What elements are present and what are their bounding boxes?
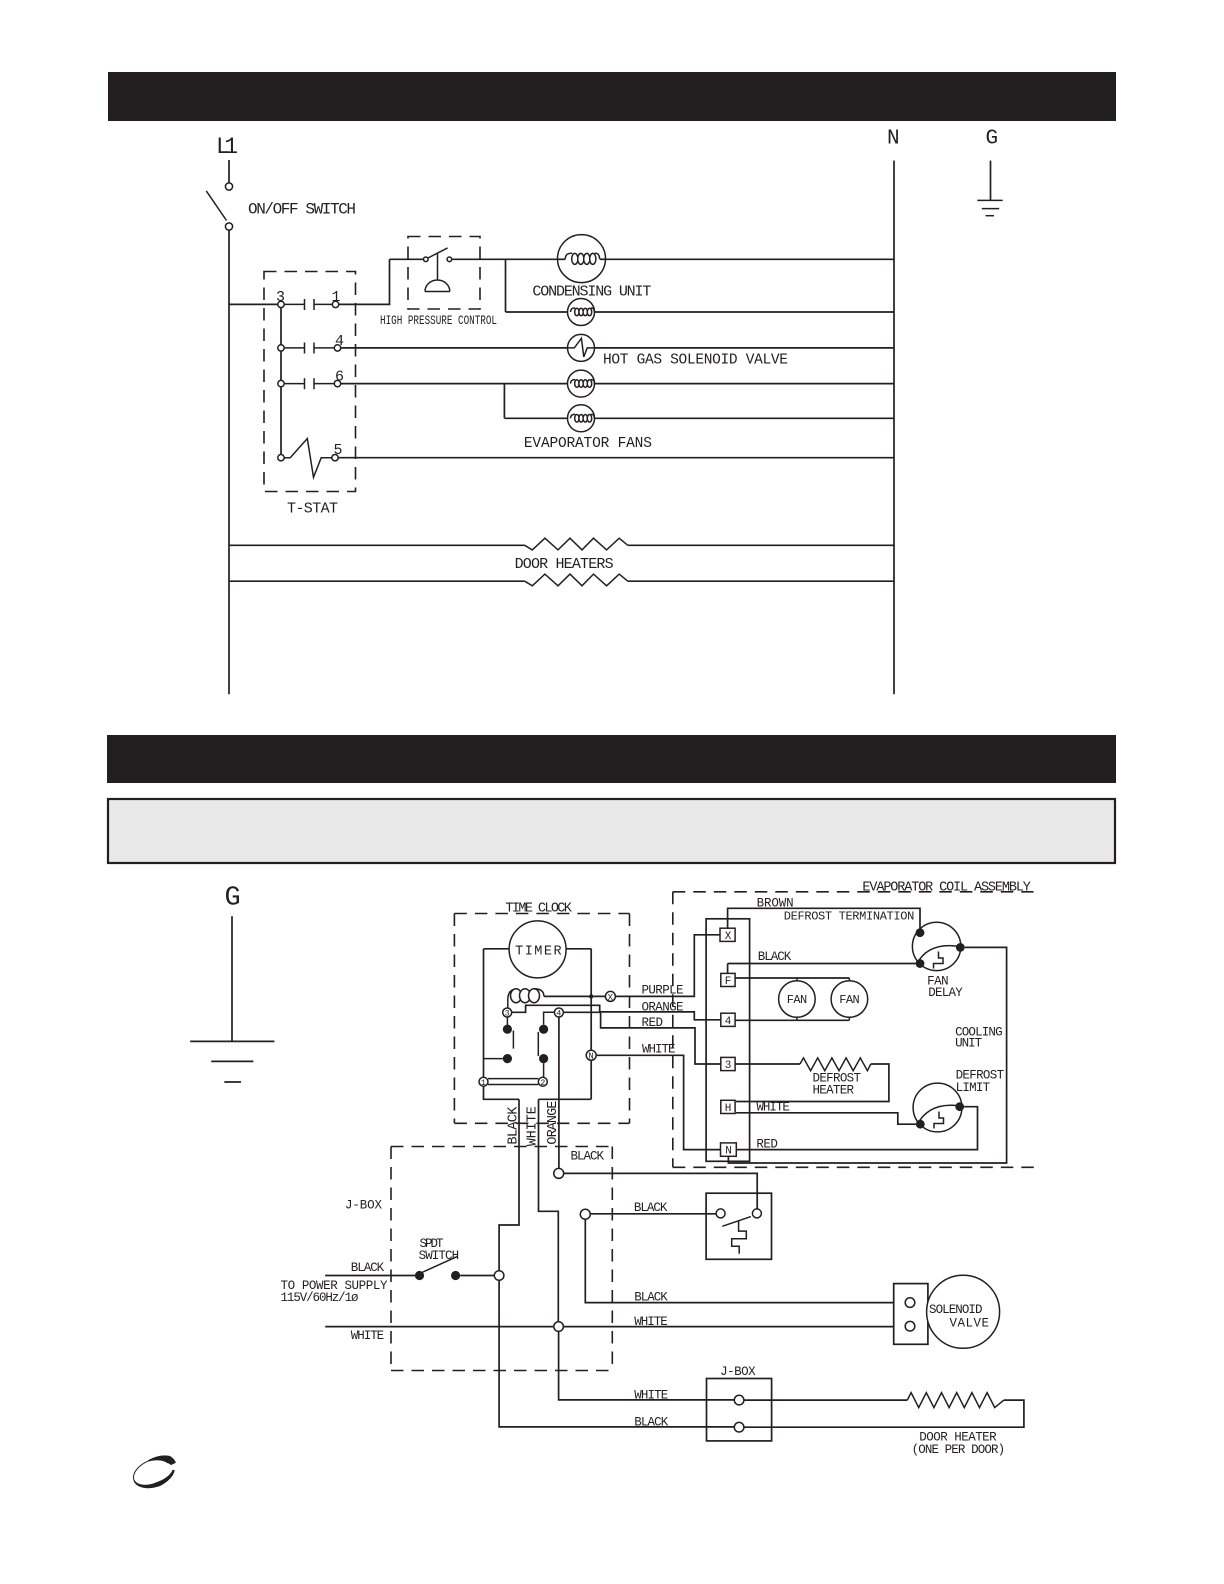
header bar 1 — [108, 72, 1116, 121]
terminal strip — [706, 919, 750, 1162]
svg-text:FAN: FAN — [839, 993, 860, 1007]
terminal 4 box — [721, 1013, 735, 1028]
svg-text:VALVE: VALVE — [950, 1317, 990, 1331]
svg-text:1: 1 — [481, 1078, 486, 1088]
wire coil to X — [544, 995, 606, 997]
ground (lower) — [190, 1041, 274, 1082]
solenoid terminal 2 — [905, 1321, 915, 1331]
terminal H box — [721, 1100, 735, 1115]
gray sub-header bar — [108, 799, 1115, 863]
svg-text:BROWN: BROWN — [757, 896, 794, 910]
wire door heater row 1b — [628, 544, 894, 546]
wire red N — [736, 1107, 977, 1150]
svg-text:SWITCH: SWITCH — [419, 1249, 460, 1263]
wire condenser fan row — [506, 311, 895, 313]
terminal X box — [720, 928, 735, 943]
wire black bottom drop — [499, 1280, 734, 1427]
svg-text:WHITE: WHITE — [351, 1329, 385, 1343]
terminal 2 (timer) — [538, 1077, 547, 1088]
svg-text:TIMER: TIMER — [515, 944, 562, 959]
svg-text:HIGH PRESSURE CONTROL: HIGH PRESSURE CONTROL — [380, 314, 497, 328]
door heater resistor 1 — [525, 538, 628, 550]
wire timer frame top — [484, 948, 592, 950]
svg-text:RED: RED — [756, 1137, 778, 1151]
wire black to relay — [590, 1213, 716, 1215]
wire orange drop — [558, 1017, 560, 1168]
junction spdt out — [494, 1271, 504, 1281]
svg-text:N: N — [887, 128, 900, 151]
svg-text:WHITE: WHITE — [634, 1315, 668, 1329]
wire black junction drop — [585, 1219, 893, 1302]
wire G lead — [990, 161, 992, 201]
svg-text:WHITE: WHITE — [634, 1388, 668, 1402]
fan motor 2 — [831, 978, 868, 1020]
wire door heater row 2b — [628, 580, 894, 582]
evaporator fan motor 2 — [568, 405, 595, 432]
wire contact1 to HPC riser — [339, 259, 390, 304]
svg-text:BLACK: BLACK — [634, 1201, 668, 1215]
wire red (from 4) — [563, 1012, 720, 1064]
wire white bottom drop — [559, 1331, 735, 1400]
solenoid valve — [927, 1275, 1000, 1348]
wire door heater row 1 — [229, 544, 525, 546]
defrost termination relay box — [706, 1193, 771, 1259]
time clock dashed enclosure — [454, 914, 629, 1124]
svg-text:ORANGE: ORANGE — [642, 1001, 684, 1015]
junction white — [554, 1322, 564, 1332]
door heater resistor 2 — [525, 574, 628, 586]
ground (top) — [977, 200, 1002, 215]
wire G lead lower — [231, 916, 233, 1041]
svg-text:N: N — [725, 1146, 732, 1158]
wire condensing drop — [505, 259, 507, 312]
svg-text:115V/60Hz/1ø: 115V/60Hz/1ø — [281, 1291, 359, 1305]
svg-text:L1: L1 — [216, 134, 238, 160]
svg-text:TIME CLOCK: TIME CLOCK — [505, 902, 572, 917]
wire defrost heater feed — [735, 1063, 800, 1065]
wire evap fan row 2 — [504, 417, 894, 419]
wire door heater return — [744, 1400, 1024, 1427]
wire white to door heater — [744, 1399, 907, 1401]
wire white drop — [539, 1099, 559, 1322]
wire defrost heater return — [736, 1064, 889, 1102]
timer contact right — [538, 1012, 554, 1077]
door heater J-BOX — [707, 1379, 772, 1441]
svg-text:CONDENSING UNIT: CONDENSING UNIT — [532, 283, 651, 300]
contact 3-1 — [276, 289, 341, 310]
svg-text:BLACK: BLACK — [571, 1150, 605, 1164]
wire timer frame right — [590, 949, 592, 1051]
fan motor 1 — [779, 978, 816, 1020]
wire brown — [728, 908, 920, 928]
wire fan return — [735, 1019, 849, 1021]
terminal X — [605, 991, 615, 1002]
svg-text:DOOR HEATERS: DOOR HEATERS — [515, 556, 614, 573]
junction black mid — [580, 1209, 590, 1219]
terminal F box — [721, 973, 735, 988]
solenoid valve terminal box — [894, 1284, 928, 1345]
evaporator fan motor 1 — [568, 370, 595, 397]
wire black drop — [499, 1099, 519, 1271]
wire black power — [325, 1275, 417, 1277]
wire t-stat row5 — [338, 457, 894, 459]
wire evap fan row 1 — [341, 383, 894, 385]
svg-text:X: X — [608, 993, 614, 1003]
wire white to solenoid — [563, 1326, 893, 1328]
svg-text:ORANGE: ORANGE — [546, 1101, 561, 1145]
wire L1 lead — [228, 160, 230, 183]
svg-text:EVAPORATOR FANS: EVAPORATOR FANS — [524, 436, 652, 452]
svg-text:LIMIT: LIMIT — [956, 1081, 991, 1095]
timer coil — [508, 989, 544, 1009]
svg-text:G: G — [225, 884, 241, 914]
J-BOX dashed enclosure — [391, 1147, 612, 1371]
terminal N (timer) — [586, 1050, 596, 1061]
svg-text:UNIT: UNIT — [955, 1037, 982, 1051]
svg-text:BLACK: BLACK — [507, 1106, 522, 1145]
timer contact left — [484, 1017, 514, 1063]
wire evap fan drop — [503, 384, 505, 419]
fan delay klixon — [912, 922, 964, 970]
svg-text:PURPLE: PURPLE — [642, 984, 684, 998]
wire white (from N) — [596, 1055, 720, 1149]
solenoid terminal 1 — [905, 1298, 915, 1308]
svg-text:N: N — [588, 1052, 593, 1062]
wire purple — [615, 935, 720, 997]
svg-text:(ONE PER DOOR): (ONE PER DOOR) — [912, 1443, 1006, 1457]
defrost heater resistor — [800, 1058, 871, 1071]
svg-text:RED: RED — [642, 1016, 664, 1030]
high pressure control dashed box — [408, 237, 480, 310]
svg-text:H: H — [725, 1103, 732, 1115]
wire link 1-2 — [488, 1079, 538, 1085]
svg-text:T-STAT: T-STAT — [287, 501, 338, 518]
terminal 1 (timer) — [479, 1077, 488, 1088]
contact 4 — [278, 333, 344, 354]
wire white H — [736, 1113, 916, 1124]
svg-text:WHITE: WHITE — [526, 1106, 541, 1146]
svg-text:G: G — [986, 128, 999, 151]
timer motor — [509, 921, 566, 978]
terminal N box — [721, 1143, 737, 1158]
hot gas solenoid valve coil — [568, 334, 595, 361]
wire fan feed — [735, 977, 849, 979]
wire left bus L1 — [228, 230, 230, 694]
wire black fan delay — [728, 964, 916, 974]
J-BOX terminal white — [734, 1395, 744, 1405]
svg-text:FAN: FAN — [787, 993, 808, 1007]
svg-text:WHITE: WHITE — [756, 1101, 790, 1115]
terminal 3 box — [721, 1057, 735, 1072]
wire cooling unit loop — [728, 947, 1006, 1163]
condenser fan motor — [568, 299, 595, 326]
header bar 2 — [107, 735, 1116, 783]
relay contact — [716, 1209, 761, 1254]
svg-text:EVAPORATOR COIL ASSEMBLY: EVAPORATOR COIL ASSEMBLY — [862, 881, 1031, 896]
t-stat dashed enclosure — [264, 272, 356, 492]
wire orange to relay — [564, 1173, 758, 1208]
wire t-stat feed — [229, 303, 278, 305]
svg-text:3: 3 — [725, 1060, 732, 1072]
junction coil/frame — [589, 994, 593, 998]
high pressure control switch — [424, 248, 452, 292]
wire hot gas row — [341, 347, 894, 349]
on/off switch — [206, 183, 232, 230]
svg-text:BLACK: BLACK — [758, 950, 792, 964]
wire door heater row 2 — [229, 580, 525, 582]
wire t-stat common bus — [280, 304, 282, 457]
svg-text:SOLENOID: SOLENOID — [929, 1303, 983, 1317]
J-BOX terminal black — [734, 1422, 744, 1432]
svg-text:DEFROST TERMINATION: DEFROST TERMINATION — [784, 909, 915, 923]
svg-text:WHITE: WHITE — [642, 1043, 676, 1057]
evaporator coil assembly dashed enclosure — [673, 892, 1034, 1168]
wire HPC input — [390, 258, 424, 260]
svg-text:HOT GAS SOLENOID VALVE: HOT GAS SOLENOID VALVE — [603, 353, 788, 369]
logo swoosh — [147, 1455, 176, 1465]
wire timer frame left — [484, 1086, 520, 1099]
compressor motor M — [558, 235, 606, 283]
svg-text:2: 2 — [540, 1078, 545, 1088]
svg-text:ON/OFF SWITCH: ON/OFF SWITCH — [248, 201, 356, 219]
wire orange (from 3) — [512, 1005, 721, 1020]
svg-text:HEATER: HEATER — [813, 1084, 855, 1098]
door heater resistor — [907, 1393, 1004, 1408]
svg-text:4: 4 — [725, 1016, 732, 1028]
svg-text:BLACK: BLACK — [634, 1291, 668, 1305]
svg-text:F: F — [725, 976, 732, 988]
svg-text:BLACK: BLACK — [634, 1415, 668, 1429]
svg-text:DELAY: DELAY — [928, 986, 963, 1000]
wire HPC output row — [452, 258, 894, 260]
wire right bus N — [893, 161, 895, 695]
svg-text:X: X — [725, 931, 732, 943]
svg-text:J-BOX: J-BOX — [720, 1365, 756, 1379]
svg-text:J-BOX: J-BOX — [345, 1198, 382, 1212]
svg-text:BLACK: BLACK — [351, 1261, 385, 1275]
wire white power — [325, 1326, 554, 1328]
contact 6 — [278, 369, 344, 390]
junction orange — [554, 1168, 564, 1178]
terminal 3 (timer) — [503, 1008, 512, 1019]
terminal 4 (timer) — [554, 1008, 563, 1019]
defrost limit klixon — [913, 1083, 964, 1132]
contact 5 t-stat element — [278, 439, 343, 478]
